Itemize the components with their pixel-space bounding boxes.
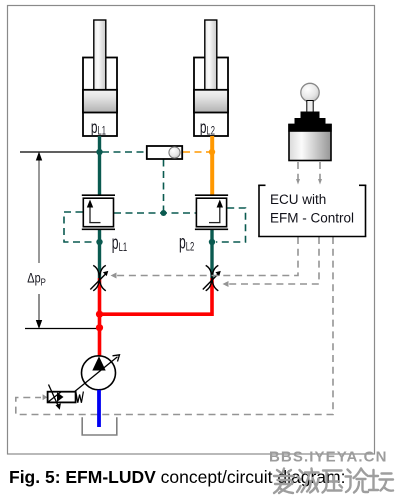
svg-text:Fig. 5: EFM-LUDV concept/circu: Fig. 5: EFM-LUDV concept/circuit diagram…: [9, 467, 345, 487]
svg-text:pL1: pL1: [112, 234, 128, 255]
svg-text:ΔpP: ΔpP: [27, 270, 46, 288]
svg-text:EFM - Control: EFM - Control: [270, 211, 354, 226]
svg-text:BBS.IYEYA.CN: BBS.IYEYA.CN: [269, 449, 388, 466]
svg-text:ECU with: ECU with: [270, 192, 326, 207]
svg-text:pL2: pL2: [179, 233, 195, 254]
